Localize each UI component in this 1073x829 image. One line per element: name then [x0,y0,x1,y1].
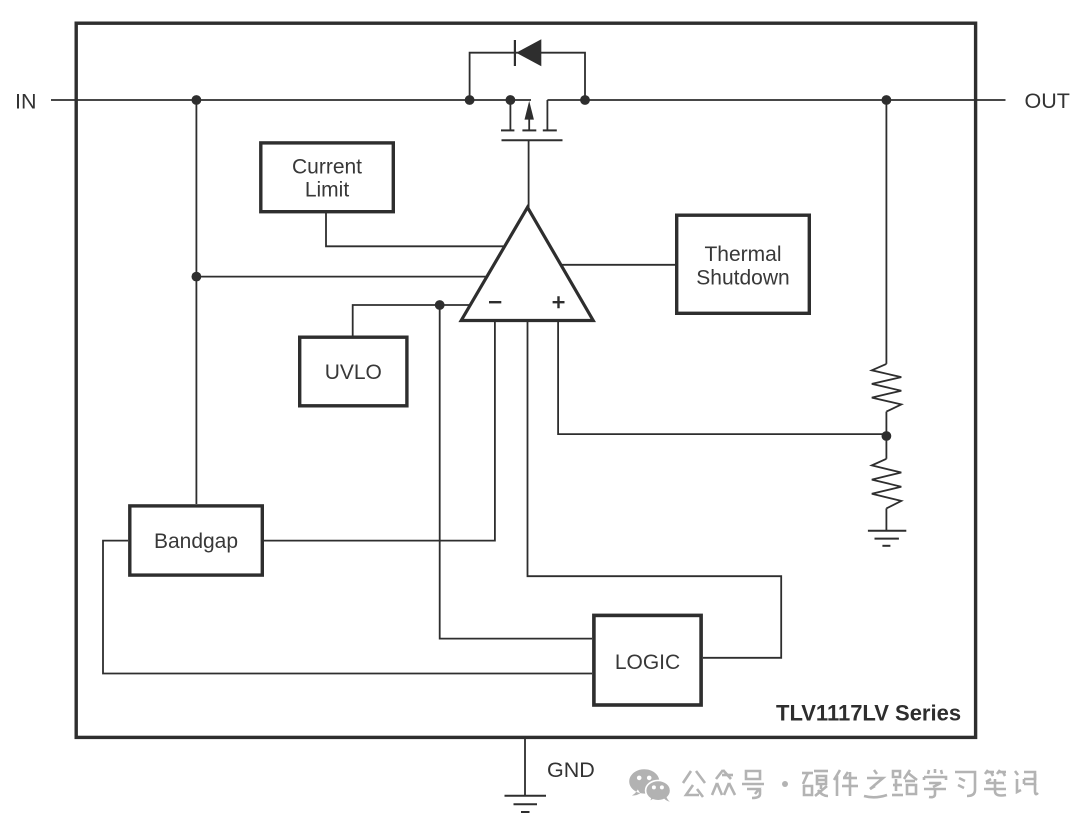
resistor R2 [872,459,902,509]
svg-text:TLV1117LV Series: TLV1117LV Series [776,700,961,725]
svg-text:LOGIC: LOGIC [615,651,680,674]
watermark text (stylized) [683,769,1038,798]
wire: GND pin stub [524,739,526,795]
outer boundary box [76,23,975,737]
diode D1 loop wire [470,53,585,100]
wire: UVLO output up and right to inverting-input node [353,305,471,336]
svg-text:Current: Current [292,155,362,178]
transistor Q1 (pass FET) [501,100,563,140]
svg-text:GND: GND [547,758,595,782]
svg-text:Shutdown: Shutdown [696,267,789,290]
node: MOSFET source on rail [506,95,516,105]
Q1 gate bar [502,139,563,141]
wire: Bandgap left loop to LOGIC left input (lower) [103,541,592,674]
Q1 drain stub [546,100,548,130]
U1 plus input mark [553,296,565,308]
Q1 source stub [509,100,511,130]
wire: Bandgap output right then up to op-amp minus input [264,321,495,541]
wire: left vertical bus x=196 from rail down to Bandgap [195,100,197,504]
block: UVLO [300,337,407,406]
wire: inverting-input node down to LOGIC left input (upper) [440,305,592,639]
wire: IN lead into left rail up to MOSFET source side [51,99,531,101]
node: feedback divider junction [882,431,892,441]
node: left bus junction at y=276.6 [192,272,202,282]
diode D1 [515,39,541,66]
svg-text:Thermal: Thermal [704,243,781,266]
svg-text:IN: IN [15,89,37,113]
U1 minus input mark [489,301,501,303]
wire: Current Limit output down and right to op-amp left edge [326,213,505,247]
wire: from node A to op-amp left edge (y=276.6) [196,276,487,278]
node A (rail / left bus junction) [192,95,202,105]
wire: right rail from MOSFET drain to OUT stub [547,99,1005,101]
node: inverting input junction [435,300,445,310]
wire: op-amp output to Thermal Shutdown [561,264,677,266]
svg-text:Limit: Limit [305,178,350,201]
Q1 body arrow [528,119,530,130]
wire: rail down to resistor R1 top [885,100,887,364]
block: Current Limit [261,143,394,212]
resistor R1 [872,364,902,412]
node: diode left leg on rail [465,95,475,105]
ground (GND pin) [505,796,547,812]
block: Thermal Shutdown [677,215,810,313]
node: diode right leg on rail [580,95,590,105]
svg-text:Bandgap: Bandgap [154,530,238,553]
wire: op-amp plus input down and right to feedback node [558,321,886,434]
wire: op-amp bottom center down, right, down to LOGIC right side [528,321,782,658]
svg-text:OUT: OUT [1025,89,1070,113]
block: LOGIC [594,615,701,705]
wire: R1 bottom through feedback node to R2 top [885,412,887,459]
wire: op-amp apex up to MOSFET gate [528,141,530,209]
svg-text:UVLO: UVLO [325,361,382,384]
wire: R2 bottom to ground [885,508,887,530]
op-amp U1 [461,207,593,320]
block: Bandgap [130,506,262,575]
ground (resistor divider) [868,531,906,546]
Q1 channel segments [501,129,514,131]
node: rail / resistor divider top [882,95,892,105]
watermark: WeChat icon [629,769,670,802]
